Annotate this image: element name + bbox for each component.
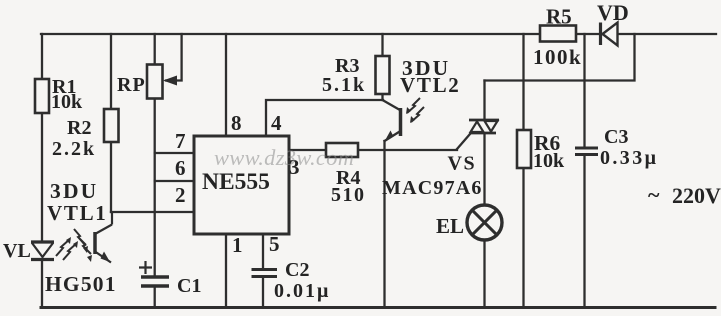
svg-text:VS: VS <box>448 153 477 175</box>
svg-text:4: 4 <box>271 111 282 135</box>
svg-text:C2: C2 <box>285 259 309 281</box>
svg-text:8: 8 <box>231 111 242 135</box>
svg-text:VL: VL <box>3 240 31 262</box>
svg-text:220V: 220V <box>672 183 721 208</box>
svg-text:0.33μ: 0.33μ <box>600 147 658 169</box>
svg-text:RP: RP <box>117 74 146 96</box>
svg-text:VTL2: VTL2 <box>400 73 460 97</box>
svg-text:1: 1 <box>232 233 243 257</box>
svg-text:0.01μ: 0.01μ <box>274 280 330 302</box>
svg-text:510: 510 <box>331 184 366 206</box>
svg-text:~: ~ <box>648 182 660 207</box>
svg-text:R5: R5 <box>546 5 572 29</box>
svg-text:5: 5 <box>269 232 280 256</box>
svg-text:3DU: 3DU <box>50 179 98 203</box>
svg-text:10k: 10k <box>533 150 565 172</box>
svg-text:2: 2 <box>175 183 186 207</box>
svg-text:www.dz3w.com: www.dz3w.com <box>214 145 354 170</box>
svg-text:7: 7 <box>175 129 186 153</box>
svg-text:NE555: NE555 <box>202 169 270 195</box>
svg-text:6: 6 <box>175 156 186 180</box>
svg-text:10k: 10k <box>51 91 83 113</box>
svg-text:R2: R2 <box>67 117 91 139</box>
svg-text:VD: VD <box>597 0 629 25</box>
svg-text:VTL1: VTL1 <box>47 201 107 225</box>
svg-text:100k: 100k <box>533 45 582 69</box>
svg-text:C3: C3 <box>604 126 628 148</box>
svg-text:5.1k: 5.1k <box>322 74 366 96</box>
svg-text:C1: C1 <box>177 275 201 297</box>
svg-text:HG501: HG501 <box>45 272 117 296</box>
svg-text:MAC97A6: MAC97A6 <box>382 177 483 199</box>
svg-text:EL: EL <box>436 214 464 238</box>
svg-text:2.2k: 2.2k <box>52 138 96 160</box>
